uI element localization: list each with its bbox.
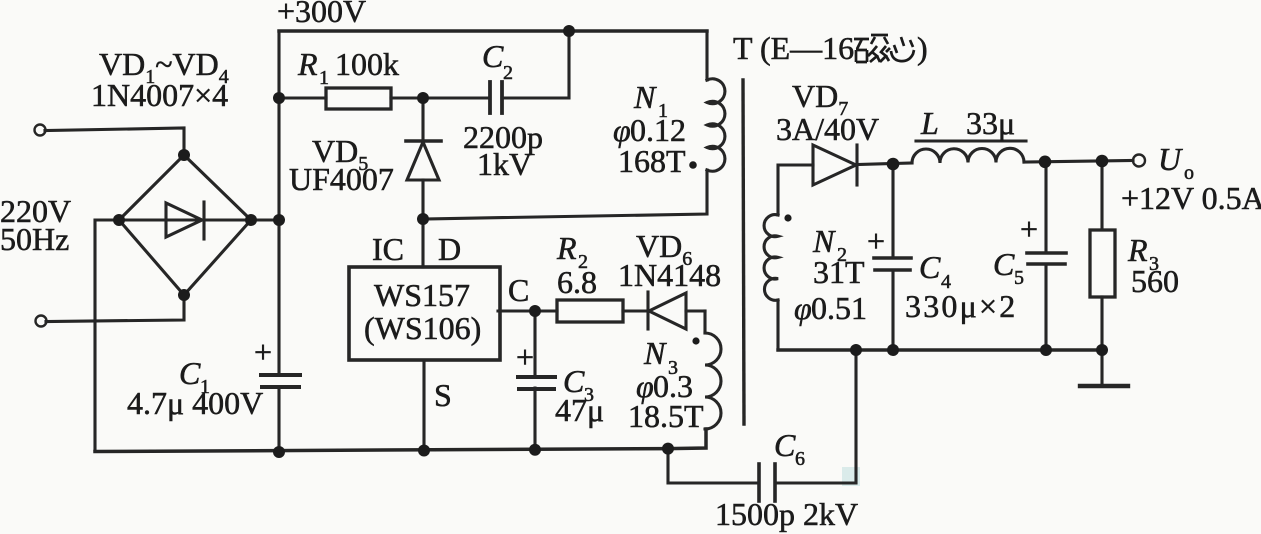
wire: C2 right lead up to rail (502, 31, 569, 98)
wire: C2 left lead (423, 96, 489, 99)
wire: C5 bottom lead (1044, 264, 1047, 350)
underline of L value (916, 139, 1026, 142)
junction: VD7 cathode node (887, 158, 900, 171)
svg-text:(WS106): (WS106) (364, 310, 481, 346)
glyph 心 (891, 37, 914, 61)
svg-text:47μ: 47μ (555, 392, 604, 428)
svg-text:560: 560 (1131, 263, 1179, 299)
capacitor C1 (261, 375, 300, 387)
svg-text:N: N (633, 79, 657, 115)
wire: VD7 cathode to L (857, 163, 912, 165)
bridge rectifier VD1-VD4 diamond (119, 155, 251, 295)
wire: IC S pin to bottom rail (422, 360, 425, 451)
svg-text:+: + (867, 223, 885, 259)
svg-text:100k: 100k (335, 46, 399, 82)
svg-text:1500p 2kV: 1500p 2kV (715, 496, 858, 532)
svg-text:C: C (774, 427, 796, 463)
wire: C4 top lead (891, 165, 894, 258)
junction: C1 bottom rail node (273, 446, 285, 458)
svg-text:4.7μ 400V: 4.7μ 400V (127, 385, 263, 421)
IC U1 WS157 box (349, 267, 500, 360)
junction: C2 top rail node (563, 25, 575, 37)
svg-text:R: R (556, 230, 577, 266)
junction: bridge right vertex (245, 214, 257, 226)
wire: C6 branch down from rail (668, 449, 757, 483)
svg-text:330μ×2: 330μ×2 (905, 288, 1017, 324)
junction: C pin node (529, 305, 541, 317)
wire: AC input line 2 horizontal (46, 294, 184, 322)
junction: bridge bottom vertex (178, 289, 190, 301)
svg-text:33μ: 33μ (966, 105, 1015, 141)
svg-text:+: + (516, 339, 534, 375)
svg-text:3A/40V: 3A/40V (776, 111, 879, 147)
svg-text:1: 1 (319, 67, 329, 89)
junction: bridge top vertex (178, 149, 190, 161)
ground (1080, 350, 1128, 386)
junction: drain node D (417, 213, 429, 225)
capacitor C6 (759, 464, 775, 501)
wire: main vertical below C1 (277, 388, 280, 452)
bridge inner diode symbol (119, 202, 251, 239)
transformer winding N1 (707, 79, 725, 171)
junction: R1 left node (273, 92, 285, 104)
terminal: output Uo (1133, 155, 1145, 167)
wire: primary bottom rail (95, 429, 706, 452)
svg-text:+: + (254, 334, 272, 370)
transformer winding N3 (705, 333, 721, 429)
svg-text:): ) (917, 30, 928, 66)
svg-text:5: 5 (1014, 267, 1024, 289)
wire: AC input line 1 horizontal (45, 128, 184, 156)
svg-text:6.8: 6.8 (557, 264, 597, 300)
svg-text:6: 6 (795, 448, 805, 470)
svg-text:D: D (438, 231, 461, 267)
wire: L to output terminal (1024, 161, 1133, 163)
svg-text:C: C (993, 246, 1015, 282)
wire: C3 bottom lead (533, 388, 536, 450)
junction: R3 top node (1096, 155, 1109, 168)
svg-text:31T: 31T (813, 254, 865, 290)
wire: R1 left lead (279, 96, 326, 99)
wire: R2 to VD6 (623, 309, 648, 312)
resistor R1 (326, 88, 391, 109)
wire: C6 right lead up to secondary rail (776, 350, 856, 483)
junction: S pin rail node (418, 445, 430, 457)
svg-text:IC: IC (372, 231, 404, 267)
wire: N2 top lead to VD7 (778, 165, 813, 215)
capacitor C4 (874, 258, 911, 270)
glyph 磁 (854, 35, 890, 62)
junction: R3 bottom rail node (1096, 344, 1108, 356)
wire: N1 top lead (705, 31, 708, 80)
svg-text:+: + (1020, 211, 1038, 247)
junction: C3 bottom rail node (529, 444, 541, 456)
polarity dot N2 (784, 214, 791, 221)
svg-text:L: L (920, 105, 939, 141)
wire: R3 bottom lead (1100, 297, 1103, 350)
svg-text:C: C (482, 38, 504, 74)
scan artifact tint (842, 467, 860, 486)
wire: N2 bottom lead (776, 300, 779, 350)
svg-text:2: 2 (503, 62, 513, 84)
svg-text:N: N (643, 335, 667, 371)
wire: main +300V vertical upper (277, 31, 280, 374)
wire: C4 bottom lead (891, 270, 894, 350)
transformer core (743, 80, 744, 424)
junction: bridge left vertex (113, 214, 125, 226)
junction: C6 secondary rail node (850, 344, 862, 356)
svg-text:0.51: 0.51 (811, 290, 867, 326)
polarity dot N3 (692, 337, 699, 344)
capacitor C2 (490, 82, 502, 113)
junction: C4 bottom rail node (887, 344, 899, 356)
wire: C5 top lead (1044, 162, 1047, 253)
capacitor C3 (518, 377, 555, 389)
terminal: AC input bottom (36, 316, 47, 327)
svg-text:C: C (919, 249, 941, 285)
wire: drain node horizontal to N1 (423, 170, 707, 219)
svg-text:1N4148: 1N4148 (618, 257, 721, 293)
resistor R2 (557, 300, 623, 322)
junction: L output node (1039, 156, 1052, 169)
wire: C3 top lead (533, 311, 536, 377)
junction: C5 bottom rail node (1040, 344, 1052, 356)
wire: +300V top rail (279, 29, 707, 32)
svg-text:S: S (434, 377, 452, 413)
junction: VD5 top node (417, 92, 429, 104)
wire: IC C pin (498, 309, 557, 312)
terminal: AC input top (35, 125, 46, 136)
wire: R1 right lead (391, 96, 423, 99)
svg-text:WS157: WS157 (374, 277, 470, 313)
svg-text:φ: φ (794, 290, 812, 326)
svg-text:U: U (1158, 141, 1183, 177)
junction: main vertical at bridge (273, 214, 285, 226)
inductor L (912, 148, 1024, 163)
svg-text:T (E—16: T (E—16 (733, 30, 854, 66)
wire: R3 top lead (1100, 161, 1103, 230)
svg-text:168T: 168T (618, 143, 686, 179)
svg-text:UF4007: UF4007 (289, 161, 394, 197)
wire: IC D pin (421, 219, 424, 267)
svg-text:+12V 0.5A: +12V 0.5A (1121, 180, 1261, 216)
transformer winding N2 (764, 215, 778, 301)
junction: C6 branch rail node (662, 443, 674, 455)
svg-text:18.5T: 18.5T (628, 398, 704, 434)
svg-text:50Hz: 50Hz (0, 221, 69, 257)
wire: bridge negative to left vertical (95, 220, 119, 450)
svg-text:1N4007×4: 1N4007×4 (91, 77, 228, 113)
polarity dot N1 (689, 161, 697, 169)
svg-text:R: R (297, 46, 318, 82)
svg-text:+300V: +300V (277, 0, 366, 29)
wire: bridge positive to main vertical (251, 218, 279, 221)
svg-text:C: C (508, 272, 529, 308)
diode VD5 (406, 98, 441, 219)
wire: N3 top lead (703, 311, 706, 333)
diode VD7 (813, 145, 857, 185)
resistor R3 (1090, 230, 1115, 297)
wire: secondary bottom rail (778, 348, 1102, 351)
capacitor C5 (1027, 253, 1066, 264)
svg-text:1kV: 1kV (477, 146, 532, 182)
diode VD6 (648, 292, 705, 329)
